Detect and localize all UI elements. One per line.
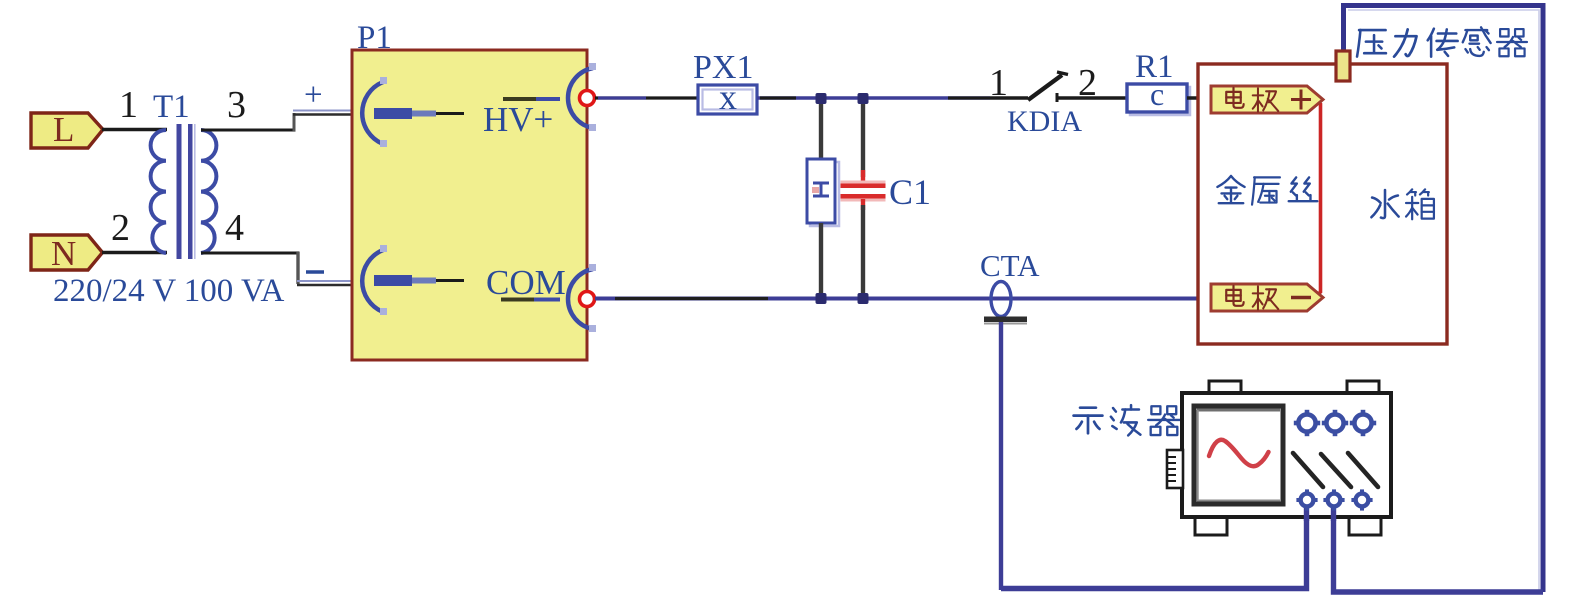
oscilloscope side connector <box>1167 450 1183 488</box>
minus label <box>306 270 324 273</box>
svg-text:R1: R1 <box>1135 49 1174 85</box>
scope probe wire 1 <box>1001 503 1307 589</box>
scope slider 3 <box>1348 453 1378 487</box>
terminal N <box>31 234 103 273</box>
svg-text:PX1: PX1 <box>693 49 753 86</box>
junction bottom right <box>858 293 869 304</box>
scope sine trace <box>1209 440 1269 467</box>
scope slider 2 <box>1321 454 1351 487</box>
label water tank <box>1371 189 1434 219</box>
electrode plus <box>1211 86 1323 113</box>
svg-text:COM: COM <box>486 263 566 302</box>
capacitor C1 <box>841 181 886 202</box>
scope knob 2 <box>1322 410 1348 436</box>
scope jack wire stubs <box>1307 504 1334 521</box>
scope jack 2 <box>1323 489 1344 510</box>
junction top right <box>858 93 869 104</box>
power supply box P1 <box>352 50 587 360</box>
wire N to T1 <box>102 251 167 254</box>
svg-text:+: + <box>304 77 323 113</box>
discharge gap branch wire bottom <box>819 223 823 298</box>
svg-text:L: L <box>53 110 74 149</box>
electrode minus <box>1211 284 1323 311</box>
P1 input connector minus <box>362 245 464 315</box>
switch KDIA <box>990 72 1128 102</box>
capacitor C1 branch wire bottom <box>861 199 865 298</box>
junction top left <box>816 93 827 104</box>
transformer T1 <box>151 130 217 253</box>
svg-text:CTA: CTA <box>980 248 1040 283</box>
scope knob 1 <box>1294 410 1320 436</box>
resistor R1 <box>1127 76 1190 115</box>
discharge gap branch wire top <box>819 98 823 160</box>
terminal L <box>31 110 103 149</box>
water tank <box>1198 64 1447 344</box>
current transformer CTA <box>984 282 1027 324</box>
svg-text:2: 2 <box>111 207 130 249</box>
svg-text:HV+: HV+ <box>483 100 553 139</box>
pressure sensor wire <box>1344 6 1544 593</box>
svg-text:C1: C1 <box>889 172 931 212</box>
wire T1 pin3 to P1 <box>201 111 352 132</box>
P1 output HV+ connector <box>503 63 596 131</box>
wire HV+ to PX1 <box>595 96 699 99</box>
svg-text:P1: P1 <box>357 20 392 56</box>
svg-text:KDIA: KDIA <box>1007 105 1082 138</box>
discharge gap FV1 <box>807 159 839 226</box>
scope jack 3 <box>1351 489 1372 510</box>
label oscilloscope <box>1074 405 1180 435</box>
scope probe wire 2 <box>1334 503 1544 592</box>
pulse transformer PX1 <box>698 77 757 117</box>
oscilloscope body <box>1182 381 1391 535</box>
svg-text:1: 1 <box>119 84 138 126</box>
svg-text:220/24 V 100 VA: 220/24 V 100 VA <box>53 273 285 309</box>
P1 output COM connector <box>501 264 596 332</box>
svg-text:2: 2 <box>1078 62 1097 104</box>
svg-text:T1: T1 <box>153 89 190 125</box>
wire L to T1 <box>102 128 167 131</box>
top rail PX1 to switch <box>757 96 990 100</box>
wire T1 pin4 to P1 <box>201 252 354 285</box>
wire R1 to electrode <box>1187 96 1214 99</box>
label metal wire <box>1217 176 1317 205</box>
pressure sensor <box>1336 51 1350 81</box>
svg-text:4: 4 <box>225 207 244 249</box>
scope jack 1 <box>1296 489 1317 510</box>
transformer core <box>177 124 195 259</box>
metal wire loop <box>1316 100 1321 296</box>
svg-text:3: 3 <box>227 84 246 126</box>
junction bottom left <box>816 293 827 304</box>
scope knob 3 <box>1350 410 1376 436</box>
capacitor C1 branch wire top <box>861 98 865 183</box>
bottom rail COM to electrode <box>595 297 1212 301</box>
svg-text:N: N <box>51 234 76 273</box>
scope slider 1 <box>1293 453 1323 487</box>
oscilloscope screen <box>1194 406 1283 504</box>
P1 input connector plus <box>362 77 464 147</box>
label pressure sensor <box>1357 27 1527 56</box>
CTA wire down <box>999 322 1003 590</box>
